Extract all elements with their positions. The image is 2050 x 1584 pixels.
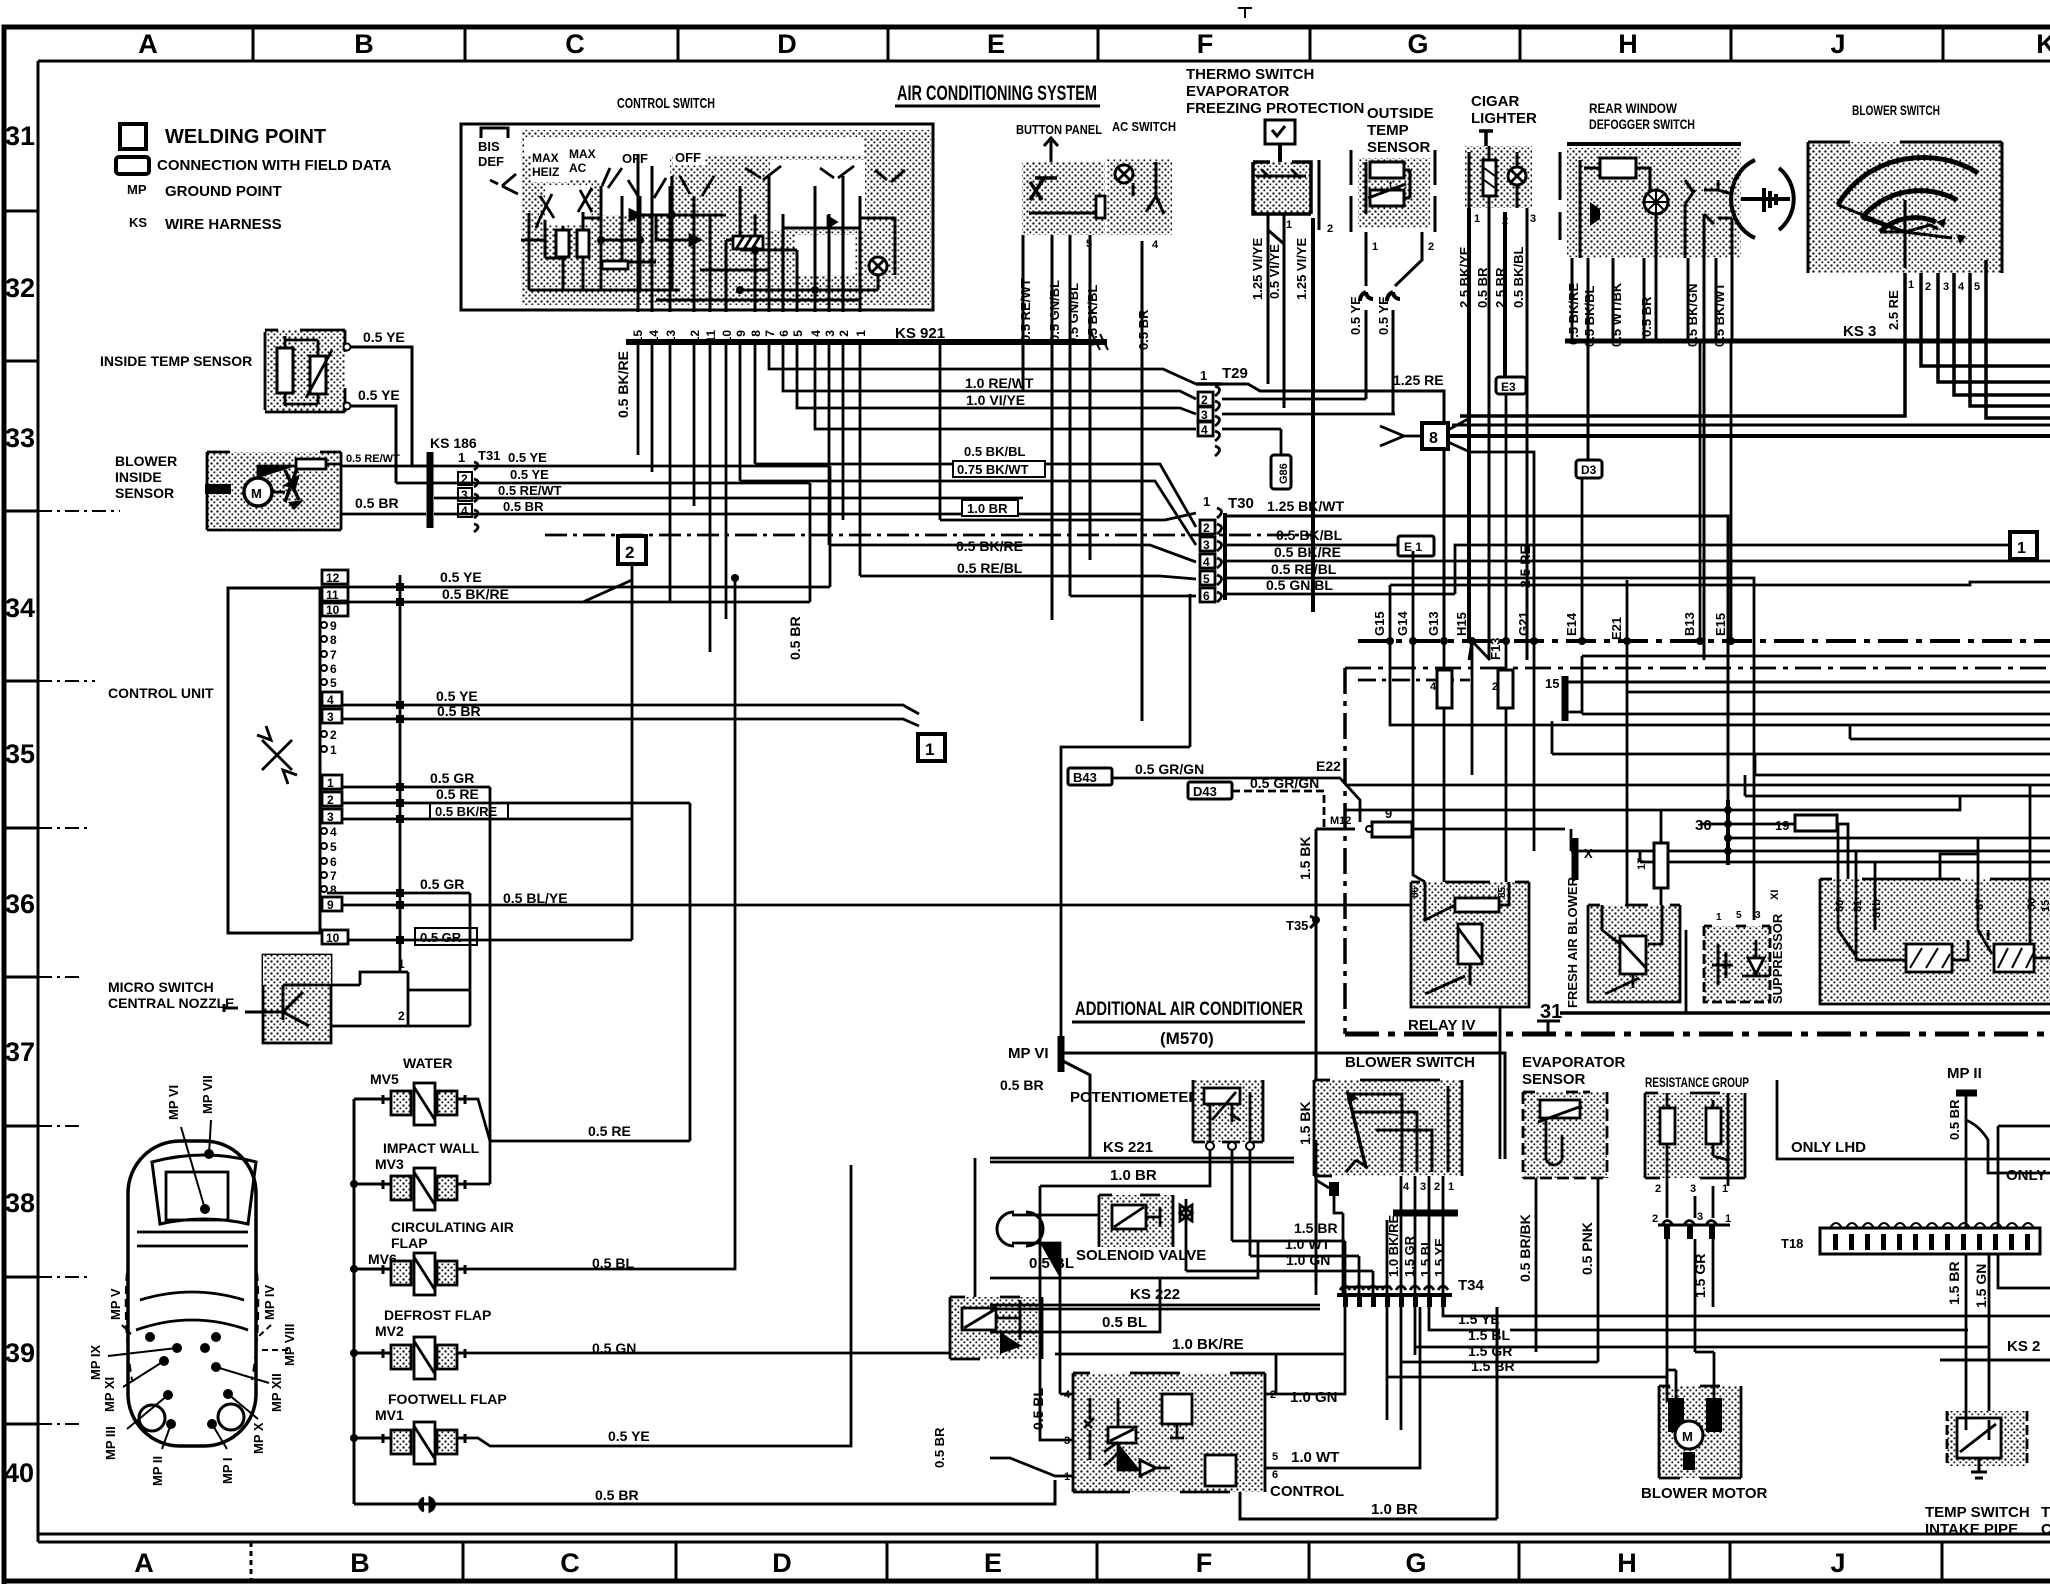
svg-text:2: 2 xyxy=(1655,1183,1661,1195)
aux valve component left of KS222 xyxy=(950,1297,1042,1359)
svg-text:33: 33 xyxy=(5,423,35,453)
wire 1.5 BK down from fuse xyxy=(1316,829,1355,916)
svg-text:6: 6 xyxy=(1272,1469,1278,1481)
svg-text:0.5 BL: 0.5 BL xyxy=(1029,1255,1074,1272)
svg-text:30: 30 xyxy=(1695,817,1712,834)
evaporator sensor label xyxy=(1522,1054,1626,1088)
svg-text:MP VII: MP VII xyxy=(200,1075,215,1114)
field data box G86 xyxy=(1271,429,1291,489)
svg-text:MP IV: MP IV xyxy=(262,1285,277,1320)
svg-text:A: A xyxy=(134,1548,154,1578)
T30 left feed wires xyxy=(740,342,1196,596)
wire 1.25 RE from T29 pin1 xyxy=(1222,384,1444,641)
svg-text:DEFROST FLAP: DEFROST FLAP xyxy=(384,1307,491,1323)
svg-text:2: 2 xyxy=(398,1009,405,1023)
potentiometer wires down xyxy=(1232,1150,1250,1256)
legend: welding point symbol xyxy=(120,124,146,149)
evaporator sensor B-EV xyxy=(1523,1092,1607,1178)
svg-text:0.5 BR: 0.5 BR xyxy=(503,499,544,514)
micro switch feed bus vertical xyxy=(396,575,404,972)
outside temp sensor label xyxy=(1367,105,1434,156)
svg-text:0.5 GR/GN: 0.5 GR/GN xyxy=(1135,761,1204,777)
svg-text:32: 32 xyxy=(5,273,35,303)
svg-text:1.5 BR: 1.5 BR xyxy=(1471,1358,1515,1374)
resistance group wires xyxy=(1667,1186,1713,1402)
svg-text:MAX: MAX xyxy=(532,151,559,165)
svg-text:C: C xyxy=(560,1548,580,1578)
svg-text:CONNECTION WITH FIELD DATA: CONNECTION WITH FIELD DATA xyxy=(157,157,392,174)
node B13 xyxy=(1682,341,1704,645)
valve MV2 xyxy=(383,1337,465,1379)
svg-text:CIRCULATING AIR: CIRCULATING AIR xyxy=(391,1219,514,1235)
svg-text:40: 40 xyxy=(4,1458,34,1488)
svg-text:T31: T31 xyxy=(478,448,500,463)
svg-text:1.0 BK/RE: 1.0 BK/RE xyxy=(1172,1336,1244,1353)
svg-text:OFF: OFF xyxy=(675,150,701,165)
rear window defogger switch label xyxy=(1589,100,1695,132)
svg-text:H: H xyxy=(1618,29,1638,59)
svg-text:1: 1 xyxy=(330,743,337,757)
T31 harness connector xyxy=(430,448,500,532)
svg-text:6: 6 xyxy=(1203,589,1210,603)
svg-text:B13: B13 xyxy=(1682,612,1697,636)
svg-text:TEMP SWITCH: TEMP SWITCH xyxy=(1925,1504,2030,1521)
node G14 xyxy=(1395,551,1425,882)
svg-text:19: 19 xyxy=(1775,818,1789,833)
T35 connector xyxy=(1286,916,1320,1283)
svg-text:1: 1 xyxy=(925,740,934,759)
node G15 xyxy=(1372,585,2050,725)
svg-text:3: 3 xyxy=(1530,213,1536,225)
svg-text:0.5 BR/BK: 0.5 BR/BK xyxy=(1517,1214,1533,1282)
svg-text:XI: XI xyxy=(1769,890,1781,900)
svg-text:6: 6 xyxy=(330,662,337,676)
control switch pin numbers 15..1 xyxy=(631,330,868,344)
svg-text:1.5 BR: 1.5 BR xyxy=(1294,1220,1338,1236)
node E15 xyxy=(1713,341,1735,645)
svg-text:0.5 BR: 0.5 BR xyxy=(932,1427,947,1468)
svg-text:0.5 RE/WT: 0.5 RE/WT xyxy=(1018,278,1033,342)
svg-text:K: K xyxy=(2036,29,2050,59)
control switch internal wires xyxy=(521,155,895,312)
control unit A-CU xyxy=(228,588,320,933)
svg-text:E: E xyxy=(984,1548,1002,1578)
svg-text:INTAKE PIPE: INTAKE PIPE xyxy=(1925,1521,2018,1538)
wire 0.5 BL xyxy=(990,1240,1258,1278)
svg-text:9: 9 xyxy=(330,619,337,633)
node E21 xyxy=(1609,580,1631,645)
control block pins xyxy=(1064,1389,1278,1483)
svg-text:AC: AC xyxy=(569,161,587,175)
fresh air blower M-FA xyxy=(1588,905,1680,1002)
suppressor C-SUP xyxy=(1704,910,1770,1002)
svg-text:5: 5 xyxy=(791,330,805,337)
svg-text:1: 1 xyxy=(1200,368,1207,383)
svg-text:5: 5 xyxy=(1736,910,1742,921)
svg-text:3: 3 xyxy=(1420,1181,1426,1193)
svg-text:3: 3 xyxy=(823,330,837,337)
wire B43 to E22 xyxy=(1112,778,1360,822)
svg-text:WIRE HARNESS: WIRE HARNESS xyxy=(165,216,282,233)
terminal 15 bar xyxy=(1545,676,2050,721)
svg-text:MP XII: MP XII xyxy=(269,1373,284,1412)
svg-text:15: 15 xyxy=(2040,900,2050,912)
control switch junction dots xyxy=(597,211,819,294)
svg-text:F13: F13 xyxy=(1488,638,1503,660)
svg-text:CONTROL SWITCH: CONTROL SWITCH xyxy=(617,95,715,112)
svg-text:1.0 GN: 1.0 GN xyxy=(1290,1389,1338,1406)
svg-text:8: 8 xyxy=(330,883,337,897)
svg-text:1.0 RE/WT: 1.0 RE/WT xyxy=(965,375,1034,391)
evaporator sensor wires down xyxy=(1536,1178,1598,1362)
svg-text:1.0 BR: 1.0 BR xyxy=(1110,1167,1157,1184)
control switch arrows xyxy=(630,210,836,245)
control block left wires xyxy=(990,1215,1073,1476)
field data box E3 xyxy=(1496,377,1526,394)
svg-text:37: 37 xyxy=(5,1037,35,1067)
svg-text:1.5 YE: 1.5 YE xyxy=(1432,1238,1447,1277)
svg-text:0.5 BR: 0.5 BR xyxy=(595,1487,639,1503)
welding point 2 xyxy=(583,536,646,940)
svg-text:T35: T35 xyxy=(1286,918,1308,933)
field data box D3 xyxy=(1576,460,1602,478)
svg-text:0.5 WT/BK: 0.5 WT/BK xyxy=(1609,282,1624,347)
svg-text:0.5 YE: 0.5 YE xyxy=(363,329,405,345)
svg-text:LIGHTER: LIGHTER xyxy=(1471,110,1537,127)
X terminal bar xyxy=(1571,829,1593,880)
control switch MAX HEIZ label xyxy=(531,150,567,182)
svg-text:KS 3: KS 3 xyxy=(1843,323,1876,340)
svg-text:1: 1 xyxy=(1725,1213,1731,1225)
svg-text:1.5 GR: 1.5 GR xyxy=(1468,1343,1512,1359)
svg-text:0.5 BK/RE: 0.5 BK/RE xyxy=(1274,544,1341,560)
svg-text:1.0 VI/YE: 1.0 VI/YE xyxy=(966,392,1025,408)
svg-text:OUTSIDE: OUTSIDE xyxy=(1367,105,1434,122)
svg-text:0.5 GN/BL: 0.5 GN/BL xyxy=(1047,280,1062,342)
micro switch pins xyxy=(398,957,405,1023)
svg-text:1.0 WT: 1.0 WT xyxy=(1291,1449,1339,1466)
svg-text:1: 1 xyxy=(1474,213,1480,225)
svg-text:AC SWITCH: AC SWITCH xyxy=(1112,119,1176,134)
svg-text:3: 3 xyxy=(1690,1183,1696,1195)
svg-text:0.5 YE: 0.5 YE xyxy=(440,569,482,585)
svg-text:FRESH AIR BLOWER: FRESH AIR BLOWER xyxy=(1565,876,1580,1008)
svg-text:BLOWER SWITCH: BLOWER SWITCH xyxy=(1852,102,1940,118)
svg-text:KS 2: KS 2 xyxy=(2007,1338,2040,1355)
svg-text:0.5 YE: 0.5 YE xyxy=(358,387,400,403)
svg-text:M12: M12 xyxy=(1330,815,1351,827)
svg-text:0.5 YE: 0.5 YE xyxy=(436,688,478,704)
svg-text:4: 4 xyxy=(1152,239,1159,251)
AC switch SW-AC xyxy=(1096,159,1172,235)
svg-text:1.25 VI/YE: 1.25 VI/YE xyxy=(1250,238,1265,300)
svg-text:5: 5 xyxy=(1272,1451,1278,1463)
svg-text:1.25 BK/WT: 1.25 BK/WT xyxy=(1267,498,1344,514)
svg-text:GROUND POINT: GROUND POINT xyxy=(165,183,282,200)
additional air conditioner title xyxy=(1072,999,1305,1048)
wire D43 to M12 xyxy=(1232,791,1355,829)
control switch pin drops below KS921 bus xyxy=(638,342,1196,652)
svg-text:M: M xyxy=(1682,1429,1693,1444)
wire 1.0 BR potentiometer xyxy=(1040,1150,1210,1215)
svg-text:2.5 RE: 2.5 RE xyxy=(1517,545,1533,588)
svg-text:8: 8 xyxy=(749,330,763,337)
valve MV3 xyxy=(383,1168,465,1210)
temp switch intake pipe B-TS xyxy=(1947,1411,2027,1478)
svg-text:0.5 YE: 0.5 YE xyxy=(508,450,547,465)
svg-text:0.5 BR: 0.5 BR xyxy=(1000,1077,1044,1093)
svg-text:G86: G86 xyxy=(1278,463,1290,484)
control switch resistor horizontal xyxy=(602,261,628,269)
svg-text:1: 1 xyxy=(1286,219,1292,231)
svg-text:39: 39 xyxy=(5,1338,35,1368)
svg-text:10: 10 xyxy=(326,931,340,945)
svg-text:MP II: MP II xyxy=(150,1456,165,1486)
right relay block xyxy=(1820,879,2050,1004)
svg-text:(M570): (M570) xyxy=(1160,1029,1214,1048)
fuse 17 xyxy=(1636,810,1668,905)
svg-text:SUPPRESSOR: SUPPRESSOR xyxy=(1770,913,1785,1004)
svg-text:E15: E15 xyxy=(1713,613,1728,636)
svg-text:G14: G14 xyxy=(1395,611,1410,636)
svg-text:T29: T29 xyxy=(1222,365,1248,382)
fuse 9 xyxy=(1366,806,1565,837)
micro switch label xyxy=(108,979,235,1011)
svg-text:TEMP: TEMP xyxy=(1367,122,1409,139)
wire 0.5 BL lower xyxy=(990,1277,1160,1332)
svg-text:INSIDE TEMP SENSOR: INSIDE TEMP SENSOR xyxy=(100,353,252,369)
svg-text:E21: E21 xyxy=(1609,617,1624,640)
blower switch pins 1-5 xyxy=(1908,279,1980,293)
svg-text:AIR CONDITIONING SYSTEM: AIR CONDITIONING SYSTEM xyxy=(897,82,1097,105)
svg-text:DEFOGGER SWITCH: DEFOGGER SWITCH xyxy=(1589,116,1695,132)
svg-text:BLOWER SWITCH: BLOWER SWITCH xyxy=(1345,1054,1475,1071)
control switch internal switches xyxy=(490,166,905,228)
svg-text:87: 87 xyxy=(1974,898,1986,910)
svg-text:6: 6 xyxy=(330,855,337,869)
MP II ground point xyxy=(1947,1065,2050,1228)
additional air conditioner M570 dash-dot box xyxy=(1345,668,2050,1034)
blower switch wires down xyxy=(1460,260,2050,418)
svg-text:E3: E3 xyxy=(1501,380,1516,394)
fuse 2 xyxy=(1492,641,1513,882)
svg-text:F: F xyxy=(1197,29,1214,59)
svg-text:T30: T30 xyxy=(1228,495,1254,512)
resistance group lower connector xyxy=(1652,1211,1731,1239)
wire 31 to right xyxy=(1560,1011,2050,1015)
ONLY LHD box xyxy=(1777,1080,2050,1288)
T34 wires xyxy=(1186,1140,1510,1430)
blower switch pin drops xyxy=(1334,1176,1443,1295)
svg-text:D: D xyxy=(772,1548,792,1578)
svg-text:SENSOR: SENSOR xyxy=(115,485,174,501)
svg-text:5: 5 xyxy=(1974,281,1980,293)
svg-text:17: 17 xyxy=(1636,858,1648,870)
blower inside sensor B-BI xyxy=(205,452,341,530)
svg-text:MP VI: MP VI xyxy=(1008,1045,1049,1062)
potentiometer R-POT xyxy=(1193,1080,1263,1150)
control switch OFF label 2 xyxy=(673,149,705,165)
solenoid valve Y-SV xyxy=(1099,1195,1192,1247)
svg-text:5: 5 xyxy=(1203,572,1210,586)
svg-text:C: C xyxy=(2041,1521,2050,1538)
svg-text:2: 2 xyxy=(1925,281,1931,293)
svg-text:4: 4 xyxy=(1958,281,1965,293)
svg-text:31: 31 xyxy=(5,121,35,151)
svg-text:0.5 BK/WT: 0.5 BK/WT xyxy=(1712,283,1727,347)
fuse 19 xyxy=(1775,815,1848,886)
svg-text:4: 4 xyxy=(1203,555,1210,569)
svg-text:2: 2 xyxy=(625,543,634,562)
svg-text:DEF: DEF xyxy=(478,154,504,169)
svg-text:CENTRAL NOZZLE: CENTRAL NOZZLE xyxy=(108,995,235,1011)
svg-text:50: 50 xyxy=(2026,898,2038,910)
valve supply bus vertical xyxy=(354,1099,383,1504)
svg-text:SENSOR: SENSOR xyxy=(1367,139,1431,156)
defogger wires down xyxy=(1572,258,1732,660)
svg-text:7: 7 xyxy=(763,330,777,337)
svg-text:1: 1 xyxy=(1203,494,1210,509)
svg-text:5: 5 xyxy=(330,840,337,854)
resistance group R-RG xyxy=(1645,1093,1745,1186)
section dash-dot stubs from left band xyxy=(38,511,120,1424)
svg-text:T34: T34 xyxy=(1458,1277,1485,1294)
relay IV box xyxy=(1410,882,1529,1007)
svg-text:0.5 RE/BL: 0.5 RE/BL xyxy=(1271,561,1337,577)
node F13 xyxy=(1488,394,1510,660)
welding point 8 xyxy=(1380,418,2050,452)
svg-text:15: 15 xyxy=(1545,676,1559,691)
svg-text:D: D xyxy=(777,29,797,59)
junction 30 column xyxy=(1695,800,2050,865)
fuse 4 xyxy=(1430,641,1452,882)
valve MV1 xyxy=(383,1422,465,1464)
control unit pin group 1 numbers 12..1 xyxy=(321,570,348,757)
svg-text:POTENTIOMETER: POTENTIOMETER xyxy=(1070,1089,1199,1106)
B43 field data box xyxy=(1068,768,1112,785)
svg-text:FREEZING PROTECTION: FREEZING PROTECTION xyxy=(1186,100,1364,117)
svg-text:MP III: MP III xyxy=(103,1426,118,1460)
svg-text:G15: G15 xyxy=(1372,611,1387,636)
control switch resistor 1 xyxy=(556,230,569,257)
svg-text:7: 7 xyxy=(330,869,337,883)
svg-text:REAR WINDOW: REAR WINDOW xyxy=(1589,100,1678,116)
KS 3 harness bus xyxy=(1565,339,2050,344)
bottom grid letters xyxy=(134,1548,1845,1578)
svg-text:OFF: OFF xyxy=(622,151,648,166)
svg-text:8: 8 xyxy=(1429,430,1438,447)
svg-text:34: 34 xyxy=(5,593,35,623)
svg-text:1.5 BK: 1.5 BK xyxy=(1297,836,1313,880)
svg-text:D3: D3 xyxy=(1581,463,1597,477)
node E14 xyxy=(1564,478,1586,645)
svg-text:KS 186: KS 186 xyxy=(430,435,477,451)
svg-text:1.5 YE: 1.5 YE xyxy=(1458,1311,1500,1327)
KS 221 harness line xyxy=(990,1158,1294,1162)
svg-text:1: 1 xyxy=(854,330,868,337)
middle-right long wires staircase xyxy=(1345,641,2050,905)
field data box E1 xyxy=(1398,536,1434,556)
svg-text:1: 1 xyxy=(1372,241,1378,253)
KS 2 harness mark xyxy=(1940,1359,2050,1362)
long wire y582 xyxy=(1390,582,2050,585)
svg-text:2.5 RE: 2.5 RE xyxy=(1886,290,1901,330)
svg-text:87b: 87b xyxy=(1871,899,1883,918)
svg-text:1.5 BR: 1.5 BR xyxy=(1946,1261,1962,1305)
control switch U-CS xyxy=(461,124,933,310)
svg-text:E: E xyxy=(987,29,1005,59)
svg-text:THERMO SWITCH: THERMO SWITCH xyxy=(1186,66,1314,83)
svg-text:4: 4 xyxy=(1403,1181,1410,1193)
svg-text:G21: G21 xyxy=(1516,611,1531,636)
svg-text:MV2: MV2 xyxy=(375,1323,404,1339)
svg-text:KS: KS xyxy=(129,215,147,230)
svg-text:2: 2 xyxy=(1201,393,1208,407)
svg-text:9: 9 xyxy=(734,330,748,337)
control switch resistor 2 xyxy=(577,230,589,257)
svg-text:10: 10 xyxy=(326,603,340,617)
thermo 1.25 VI/YE drop continues xyxy=(1268,369,1313,612)
svg-text:1.25 RE: 1.25 RE xyxy=(1393,372,1444,388)
blower motor M-BM xyxy=(1659,1366,1741,1478)
node row dash-dot line xyxy=(1358,639,2050,643)
svg-text:MP X: MP X xyxy=(251,1422,266,1454)
svg-text:9: 9 xyxy=(327,898,334,912)
svg-text:3: 3 xyxy=(1755,910,1761,921)
svg-text:0.5 BK/RE: 0.5 BK/RE xyxy=(956,538,1023,554)
svg-text:SENSOR: SENSOR xyxy=(1522,1071,1586,1088)
T30 connector xyxy=(1200,494,1254,603)
T31 pin wires right xyxy=(396,466,1142,602)
svg-text:0.5 YE: 0.5 YE xyxy=(510,467,549,482)
svg-text:4: 4 xyxy=(327,693,334,707)
svg-text:0.5 BK/BL: 0.5 BK/BL xyxy=(964,444,1025,459)
MP VI return wire up xyxy=(1061,594,1190,1046)
svg-text:KS 222: KS 222 xyxy=(1130,1286,1180,1303)
svg-text:J: J xyxy=(1830,1548,1845,1578)
svg-text:E14: E14 xyxy=(1564,612,1579,636)
welding point 1 right xyxy=(1200,532,2037,559)
svg-text:1: 1 xyxy=(458,450,465,465)
svg-text:J: J xyxy=(1830,29,1845,59)
svg-text:FLAP: FLAP xyxy=(391,1235,428,1251)
node G21 xyxy=(1470,452,1538,851)
svg-text:B: B xyxy=(354,29,374,59)
svg-text:4: 4 xyxy=(461,504,468,518)
svg-text:0.5 BK/RE: 0.5 BK/RE xyxy=(442,586,509,602)
solenoid valve left connector xyxy=(997,1212,1099,1278)
svg-text:IMPACT WALL: IMPACT WALL xyxy=(383,1140,480,1156)
dash-dot section line mid page xyxy=(545,534,1313,537)
defogger rotary symbol xyxy=(1731,160,1794,238)
svg-text:1: 1 xyxy=(1448,1181,1454,1193)
svg-text:CONTROL: CONTROL xyxy=(1270,1483,1344,1500)
node G13 xyxy=(1426,611,1448,645)
MP VI ground point xyxy=(1008,1036,1505,1159)
svg-text:D43: D43 xyxy=(1193,784,1217,799)
wires into right relay block xyxy=(1838,785,2030,886)
svg-text:G: G xyxy=(1407,29,1428,59)
svg-text:G: G xyxy=(1405,1548,1426,1578)
svg-text:C: C xyxy=(565,29,585,59)
svg-text:FOOTWELL FLAP: FOOTWELL FLAP xyxy=(388,1391,507,1407)
control unit pin wires xyxy=(327,587,1500,1184)
svg-text:0.5 GR: 0.5 GR xyxy=(430,770,474,786)
button panel wires down xyxy=(1023,235,1142,721)
blower switch SW-BL xyxy=(1808,142,2002,273)
welding point 1 xyxy=(918,734,945,761)
svg-text:MP XI: MP XI xyxy=(102,1377,117,1412)
